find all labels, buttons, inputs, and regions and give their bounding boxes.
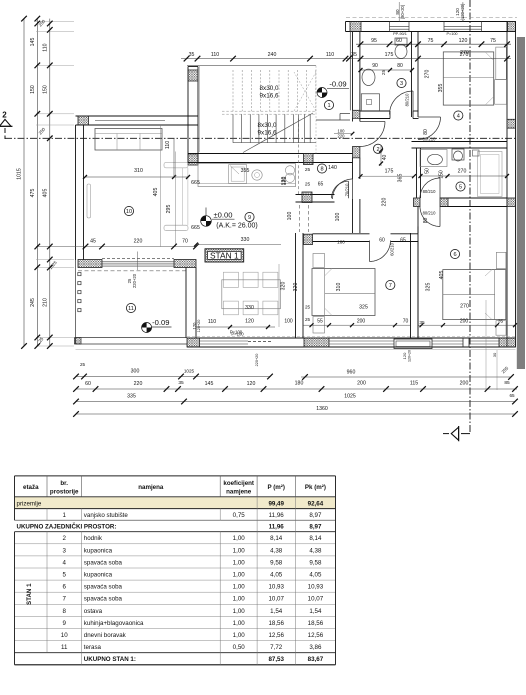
svg-text:7,72: 7,72 (270, 644, 283, 651)
svg-text:Pk (m²): Pk (m²) (305, 484, 326, 491)
svg-text:70: 70 (403, 319, 409, 325)
svg-text:175: 175 (385, 52, 394, 58)
svg-text:prostorije: prostorije (50, 488, 79, 495)
svg-text:110: 110 (165, 141, 171, 149)
svg-text:1,00: 1,00 (233, 559, 246, 566)
svg-text:7: 7 (389, 283, 392, 289)
svg-text:1,00: 1,00 (233, 608, 246, 615)
svg-text:kupaonica: kupaonica (84, 547, 113, 554)
svg-text:18,56: 18,56 (308, 620, 324, 627)
svg-text:ostava: ostava (84, 608, 103, 615)
svg-text:UKUPNO ZAJEDNIČKI PROSTOR:: UKUPNO ZAJEDNIČKI PROSTOR: (17, 524, 117, 531)
svg-text:960: 960 (347, 370, 356, 376)
svg-text:6: 6 (453, 252, 456, 258)
svg-text:245: 245 (30, 298, 36, 307)
svg-text:70: 70 (182, 239, 188, 245)
svg-text:110: 110 (42, 43, 48, 51)
svg-text:10: 10 (126, 209, 132, 215)
svg-text:150: 150 (30, 85, 36, 94)
svg-text:120: 120 (247, 381, 256, 387)
svg-text:9x16,6: 9x16,6 (260, 93, 279, 100)
svg-text:11: 11 (128, 306, 134, 312)
svg-text:8,14: 8,14 (270, 535, 283, 542)
svg-text:145: 145 (30, 38, 36, 47)
svg-text:terasa: terasa (84, 644, 102, 651)
svg-text:60: 60 (379, 238, 385, 244)
svg-text:4,38: 4,38 (309, 547, 322, 554)
svg-text:8,97: 8,97 (309, 512, 322, 519)
svg-text:10,93: 10,93 (308, 584, 324, 591)
svg-text:6: 6 (62, 584, 66, 591)
svg-text:br.: br. (60, 480, 68, 487)
svg-text:150: 150 (42, 85, 48, 94)
svg-text:180: 180 (337, 240, 345, 245)
svg-text:8x30,0: 8x30,0 (258, 122, 277, 129)
svg-text:25: 25 (381, 70, 386, 76)
svg-text:P=100: P=100 (230, 330, 243, 335)
svg-text:1015: 1015 (17, 168, 23, 180)
svg-text:665: 665 (191, 180, 200, 186)
svg-text:kuhinja+blagovaonica: kuhinja+blagovaonica (84, 620, 144, 627)
svg-text:25: 25 (305, 305, 311, 310)
svg-text:320: 320 (293, 283, 299, 292)
svg-text:STAN 1: STAN 1 (210, 251, 239, 261)
svg-text:8: 8 (320, 167, 323, 173)
svg-text:P (m²): P (m²) (267, 484, 284, 491)
svg-text:hodnik: hodnik (84, 535, 103, 542)
svg-text:koeficijent: koeficijent (223, 480, 254, 487)
svg-text:spavaća soba: spavaća soba (84, 596, 123, 603)
svg-text:1025: 1025 (344, 394, 356, 400)
svg-text:25: 25 (80, 362, 86, 367)
svg-text:310: 310 (134, 168, 143, 174)
svg-text:120: 120 (245, 319, 254, 325)
svg-text:270: 270 (425, 70, 431, 79)
svg-text:1,00: 1,00 (233, 547, 246, 554)
svg-text:30: 30 (492, 352, 497, 357)
svg-text:5: 5 (62, 572, 66, 579)
svg-text:355: 355 (438, 84, 444, 93)
svg-text:namjena: namjena (138, 484, 164, 491)
svg-text:475: 475 (30, 189, 36, 198)
svg-text:4: 4 (62, 559, 66, 566)
svg-text:12,56: 12,56 (308, 632, 324, 639)
svg-text:220+20: 220+20 (132, 273, 137, 288)
svg-text:75: 75 (428, 38, 434, 44)
svg-text:3,86: 3,86 (309, 644, 322, 651)
svg-text:namjene: namjene (226, 488, 252, 495)
svg-text:320: 320 (281, 282, 287, 291)
svg-text:5: 5 (459, 185, 462, 191)
svg-text:UKUPNO STAN 1:: UKUPNO STAN 1: (84, 656, 136, 663)
svg-text:1: 1 (327, 103, 330, 109)
svg-text:8,97: 8,97 (309, 524, 322, 531)
svg-text:210: 210 (42, 298, 48, 307)
svg-text:spavaća soba: spavaća soba (84, 584, 123, 591)
svg-text:220+20: 220+20 (255, 354, 259, 367)
svg-text:95: 95 (371, 38, 377, 44)
svg-text:11,96: 11,96 (269, 524, 285, 531)
svg-text:100: 100 (287, 212, 293, 221)
svg-text:325: 325 (426, 283, 432, 292)
svg-text:80/210: 80/210 (423, 211, 436, 216)
svg-text:110: 110 (208, 319, 216, 325)
svg-text:80: 80 (397, 63, 403, 69)
svg-text:120+20: 120+20 (408, 350, 412, 362)
svg-text:83,67: 83,67 (308, 656, 324, 663)
svg-text:1,54: 1,54 (270, 608, 283, 615)
svg-text:405: 405 (439, 271, 445, 280)
svg-text:200: 200 (357, 381, 366, 387)
svg-text:8x30,0: 8x30,0 (260, 85, 279, 92)
svg-text:99,49: 99,49 (268, 500, 284, 507)
svg-text:200: 200 (357, 319, 366, 325)
svg-text:35: 35 (419, 320, 425, 326)
svg-text:65: 65 (509, 393, 515, 398)
svg-text:12,56: 12,56 (268, 632, 284, 639)
svg-text:3: 3 (62, 547, 66, 554)
svg-text:PP-90/1: PP-90/1 (393, 32, 407, 36)
svg-text:25: 25 (305, 317, 311, 322)
svg-text:70/210: 70/210 (345, 183, 350, 196)
svg-text:40: 40 (382, 155, 388, 161)
svg-text:295: 295 (166, 205, 172, 214)
svg-text:310: 310 (336, 283, 342, 292)
svg-text:405: 405 (153, 188, 159, 197)
svg-text:60/210: 60/210 (390, 242, 395, 255)
svg-text:270: 270 (460, 50, 469, 56)
svg-text:60: 60 (85, 381, 91, 387)
svg-text:9,58: 9,58 (270, 559, 283, 566)
svg-text:330: 330 (245, 305, 254, 311)
svg-text:87,53: 87,53 (268, 656, 284, 663)
svg-text:7: 7 (62, 596, 66, 603)
svg-text:220: 220 (134, 381, 143, 387)
svg-text:90: 90 (372, 63, 378, 69)
svg-text:9,58: 9,58 (309, 559, 322, 566)
svg-text:355: 355 (241, 168, 250, 174)
svg-text:-0.09: -0.09 (329, 80, 346, 89)
svg-text:9: 9 (248, 215, 251, 221)
svg-text:kupaonica: kupaonica (84, 572, 113, 579)
svg-text:4,38: 4,38 (270, 547, 283, 554)
svg-text:1,00: 1,00 (233, 620, 246, 627)
svg-text:220: 220 (382, 198, 388, 207)
svg-text:1,00: 1,00 (233, 572, 246, 579)
svg-text:80/210: 80/210 (423, 189, 436, 194)
svg-text:P=100: P=100 (446, 32, 457, 36)
svg-text:(80+20): (80+20) (400, 4, 405, 19)
svg-text:25: 25 (127, 278, 132, 283)
svg-text:25: 25 (305, 182, 311, 188)
svg-text:220: 220 (134, 239, 143, 245)
svg-text:300: 300 (131, 369, 140, 375)
svg-text:25: 25 (305, 167, 311, 173)
svg-text:dnevni boravak: dnevni boravak (84, 632, 127, 639)
svg-text:140: 140 (328, 165, 337, 171)
svg-text:etaža: etaža (23, 484, 39, 491)
svg-text:35: 35 (189, 52, 195, 58)
svg-text:325: 325 (359, 305, 368, 311)
svg-text:0,75: 0,75 (233, 512, 246, 519)
svg-text:45: 45 (90, 239, 96, 245)
svg-text:115: 115 (410, 381, 418, 387)
svg-text:8: 8 (62, 608, 66, 615)
svg-text:110: 110 (211, 52, 219, 58)
svg-text:1,54: 1,54 (309, 608, 322, 615)
svg-text:270: 270 (460, 304, 469, 310)
svg-text:85: 85 (504, 380, 510, 386)
svg-text:145: 145 (205, 381, 214, 387)
svg-text:10: 10 (61, 632, 68, 639)
svg-text:1,00: 1,00 (233, 596, 246, 603)
svg-text:1360: 1360 (316, 406, 328, 412)
svg-text:1,00: 1,00 (233, 535, 246, 542)
svg-text:35: 35 (351, 52, 357, 58)
svg-text:120: 120 (459, 38, 468, 44)
svg-text:18,56: 18,56 (268, 620, 284, 627)
svg-text:11: 11 (61, 644, 68, 651)
svg-text:60: 60 (396, 38, 402, 44)
svg-text:9x16,6: 9x16,6 (258, 130, 277, 137)
svg-text:4,05: 4,05 (309, 572, 322, 579)
svg-text:220: 220 (338, 134, 346, 139)
svg-text:9: 9 (62, 620, 66, 627)
svg-text:1: 1 (62, 512, 66, 519)
svg-text:120: 120 (402, 352, 407, 359)
svg-text:240: 240 (268, 52, 277, 58)
svg-text:3: 3 (400, 81, 403, 87)
svg-text:10,07: 10,07 (268, 596, 284, 603)
svg-text:50: 50 (425, 168, 431, 174)
svg-text:0,50: 0,50 (233, 644, 246, 651)
svg-text:vanjsko stubište: vanjsko stubište (84, 512, 129, 519)
svg-text:(A.K.= 26.00): (A.K.= 26.00) (216, 223, 257, 230)
svg-text:2: 2 (2, 111, 7, 120)
svg-text:120+20: 120+20 (197, 320, 201, 333)
svg-text:prizemlje: prizemlje (17, 500, 42, 507)
svg-text:1,00: 1,00 (233, 584, 246, 591)
svg-text:80: 80 (423, 129, 429, 135)
svg-text:11,96: 11,96 (269, 512, 285, 519)
svg-text:2: 2 (62, 535, 66, 542)
svg-text:±0.00: ±0.00 (214, 211, 233, 220)
svg-text:1,00: 1,00 (233, 632, 246, 639)
svg-text:10,93: 10,93 (268, 584, 284, 591)
svg-text:35: 35 (178, 380, 184, 386)
svg-text:10,07: 10,07 (308, 596, 324, 603)
svg-text:55: 55 (317, 319, 323, 325)
svg-text:1025: 1025 (184, 369, 195, 374)
svg-text:100: 100 (335, 213, 341, 222)
svg-text:175: 175 (385, 169, 394, 175)
svg-text:100: 100 (284, 319, 293, 325)
svg-text:92,64: 92,64 (308, 500, 324, 507)
svg-text:330: 330 (241, 237, 250, 243)
svg-text:200: 200 (460, 319, 469, 325)
svg-text:spavaća soba: spavaća soba (84, 559, 123, 566)
svg-text:80/210: 80/210 (423, 137, 436, 142)
svg-text:365: 365 (398, 174, 404, 183)
svg-text:75: 75 (490, 38, 496, 44)
svg-text:405: 405 (42, 189, 48, 198)
svg-text:4,05: 4,05 (270, 572, 283, 579)
svg-text:4: 4 (457, 114, 460, 120)
svg-text:665: 665 (191, 225, 200, 231)
svg-text:335: 335 (127, 394, 136, 400)
svg-text:80: 80 (423, 218, 429, 224)
svg-text:270: 270 (458, 169, 467, 175)
svg-text:8,14: 8,14 (309, 535, 322, 542)
svg-text:-0.09: -0.09 (152, 318, 169, 327)
svg-text:150: 150 (439, 170, 445, 179)
svg-text:110: 110 (326, 52, 334, 58)
svg-text:180: 180 (295, 381, 304, 387)
svg-text:200: 200 (460, 381, 469, 387)
svg-text:65: 65 (400, 238, 406, 244)
svg-text:80/210: 80/210 (405, 93, 410, 106)
svg-text:STAN 1: STAN 1 (26, 583, 33, 605)
svg-text:65: 65 (318, 182, 324, 188)
svg-text:120: 120 (281, 177, 287, 186)
svg-text:(120+20): (120+20) (460, 3, 465, 20)
